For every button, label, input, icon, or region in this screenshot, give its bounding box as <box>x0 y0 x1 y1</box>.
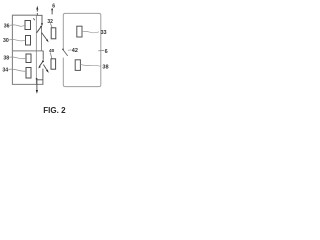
leader from label 38 to R3 <box>9 57 26 59</box>
cell block 30 (rect R2) <box>26 36 31 46</box>
leader from RB to label 38 <box>81 64 102 66</box>
node (junction dot at bottom wire corner) <box>36 78 38 80</box>
box U1 (left unit enclosure) <box>12 15 43 84</box>
leader from label 40 to R6 <box>50 53 52 59</box>
label 36 <box>4 23 10 29</box>
wire (lower switch output down to bottom edge, with tap to B) <box>37 69 43 85</box>
label 38 <box>3 55 9 61</box>
switch S3 blade (switch 42 in U2 left edge) <box>63 50 67 56</box>
leader dash to label 6 (right edge) <box>98 49 104 52</box>
leader dash to label 42 <box>68 49 72 52</box>
box U2 (right unit enclosure with gap in left edge for switch 42) <box>63 13 101 86</box>
label 6 (above arrow C) <box>52 4 55 10</box>
svg-text:38: 38 <box>102 64 108 70</box>
svg-text:6: 6 <box>105 49 108 55</box>
arrow (from lower switch to R6 bottom-left) <box>43 65 48 73</box>
wire (divider between upper and lower half of U1, extends right to lower switch) <box>12 50 43 52</box>
svg-text:36: 36 <box>4 23 10 29</box>
leader from label 32 to R5 <box>50 23 52 28</box>
svg-text:42: 42 <box>72 48 78 54</box>
label 32 <box>47 19 53 25</box>
svg-text:34: 34 <box>2 67 8 73</box>
leader from label 30 to R2 <box>9 39 25 40</box>
arrow B (output arrow down through bottom edge of U1) <box>36 80 38 94</box>
arrow (from upper switch to R5 bottom-left) <box>42 33 49 43</box>
arrow A (output arrow up from top-right of U1) <box>36 6 38 15</box>
cell block 38 (rect R3) <box>26 54 31 63</box>
node (pivot dot of switch 42) <box>62 49 64 51</box>
svg-text:38: 38 <box>3 55 9 61</box>
wire (upper switch common stem down to divider) <box>40 28 42 51</box>
component R5 (small block right of upper switch) <box>51 28 56 39</box>
leader from label 34 to R4 <box>8 69 26 71</box>
node (upper switch pivot dot) <box>40 26 42 28</box>
label 38 (right of U2) <box>102 64 108 70</box>
caption FIG. 2 <box>43 106 66 115</box>
wire (divider corner down to lower switch) <box>42 51 44 60</box>
leader from RA to label 33 <box>82 31 99 32</box>
label 34 <box>2 67 8 73</box>
arrowhead (upper switch moving contact, pointing down) <box>41 23 43 26</box>
component R6 (small block right of lower switch) <box>51 59 56 69</box>
svg-text:30: 30 <box>3 38 9 44</box>
arrow C (small up arrow above R5) <box>51 8 53 15</box>
cell block 34 (rect R4) <box>26 68 31 79</box>
cell block 36 (rect R1) <box>25 21 31 30</box>
component RA (block 33 inside U2) <box>77 26 82 37</box>
label 42 <box>72 48 78 54</box>
label 6 (right edge of U2) <box>105 49 108 55</box>
svg-text:6: 6 <box>52 4 55 10</box>
label 33 <box>101 30 107 36</box>
switch S1 blade (upper changeover blade) <box>37 27 41 33</box>
component RB (block 38 inside U2) <box>75 60 80 71</box>
node (lower switch pivot dot) <box>42 60 44 62</box>
svg-text:FIG. 2: FIG. 2 <box>43 106 66 115</box>
wire (top edge extension to upper switch contact) <box>36 15 42 23</box>
svg-text:33: 33 <box>101 30 107 36</box>
switch S2 blade (lower changeover blade) <box>38 61 43 68</box>
tick (small stray mark near R1 top-right) <box>33 18 34 20</box>
label 30 <box>3 38 9 44</box>
leader from label 36 to R1 <box>10 25 25 26</box>
label 40 <box>49 48 55 54</box>
svg-text:40: 40 <box>49 48 55 54</box>
